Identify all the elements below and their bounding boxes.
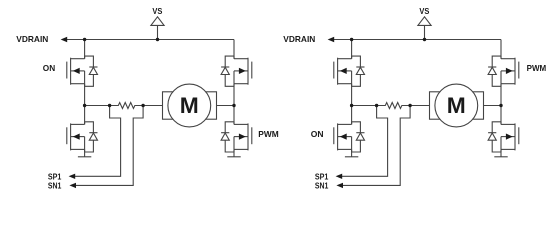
- svg-text:ON: ON: [311, 129, 324, 139]
- svg-text:PWM: PWM: [527, 63, 547, 73]
- svg-text:VS: VS: [152, 6, 162, 16]
- svg-text:SN1: SN1: [315, 181, 329, 191]
- svg-text:VDRAIN: VDRAIN: [16, 34, 48, 44]
- svg-text:ON: ON: [43, 63, 55, 73]
- svg-text:M: M: [447, 93, 466, 118]
- svg-text:VS: VS: [419, 6, 429, 16]
- svg-text:M: M: [180, 93, 199, 118]
- svg-text:VDRAIN: VDRAIN: [283, 34, 315, 44]
- svg-text:PWM: PWM: [258, 129, 278, 139]
- svg-text:SN1: SN1: [48, 181, 62, 191]
